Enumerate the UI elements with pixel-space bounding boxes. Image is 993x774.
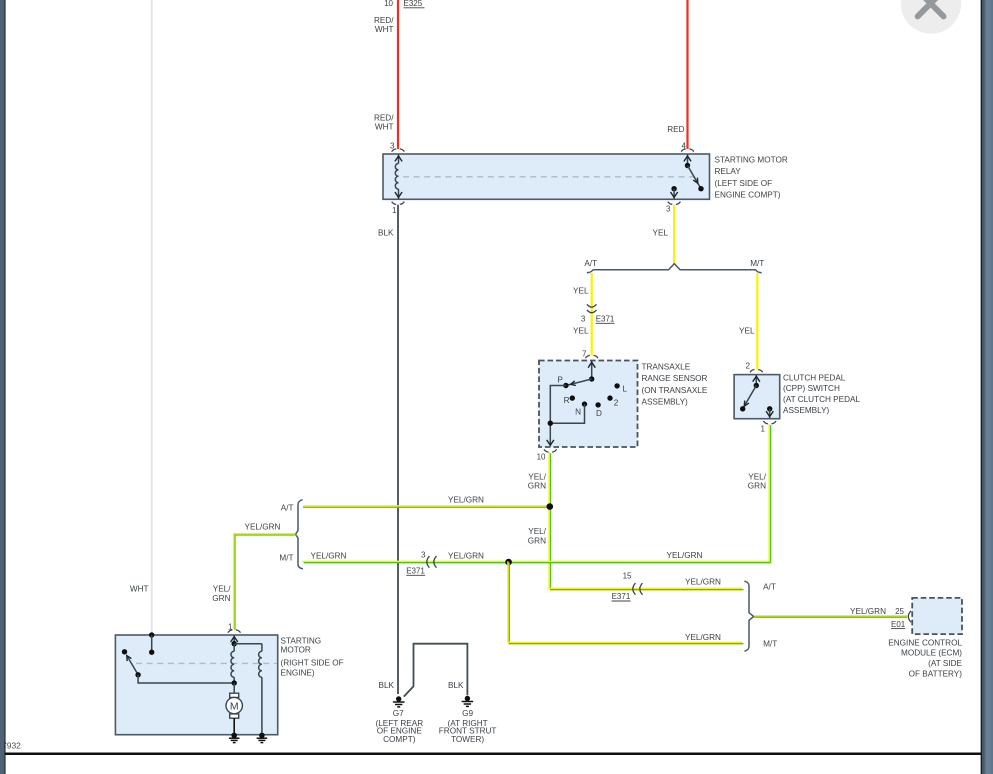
svg-text:TOWER): TOWER): [451, 735, 484, 744]
svg-text:YEL/: YEL/: [213, 585, 231, 594]
svg-text:YEL/GRN: YEL/GRN: [245, 522, 281, 531]
wire YEL from relay pin 3 to options bracket: [673, 205, 675, 264]
relay coil (pins 3-1): [395, 155, 402, 199]
connector arc relay pin 3 bottom: [668, 202, 681, 205]
connector arc relay pin 3 top: [392, 149, 405, 152]
page right bar: [980, 0, 982, 774]
motor M symbol: [226, 683, 242, 735]
svg-text:(CPP) SWITCH: (CPP) SWITCH: [783, 384, 840, 393]
wire RED vertical to relay pin 4: [686, 0, 688, 149]
svg-text:N: N: [575, 407, 581, 416]
svg-text:A/T: A/T: [763, 583, 776, 592]
svg-text:WHT: WHT: [375, 25, 394, 34]
svg-text:E01: E01: [891, 620, 906, 629]
svg-text:WHT: WHT: [375, 123, 394, 132]
svg-text:STARTING MOTOR: STARTING MOTOR: [715, 156, 788, 165]
svg-text:OF BATTERY): OF BATTERY): [909, 669, 963, 678]
svg-text:YEL/GRN: YEL/GRN: [685, 633, 721, 642]
svg-text:P: P: [557, 376, 563, 385]
wire YEL/GRN merge to ECM pin 25: [754, 616, 907, 617]
svg-text:GRN: GRN: [212, 594, 230, 603]
svg-text:(RIGHT SIDE OF: (RIGHT SIDE OF: [281, 658, 344, 667]
svg-text:E325: E325: [404, 0, 423, 8]
ground G7: [375, 696, 423, 744]
clutch internal switch: [740, 375, 773, 418]
svg-text:YEL: YEL: [573, 326, 589, 335]
motor pin 1 entry and coils: [231, 635, 262, 735]
label ENGINE CONTROL MODULE (ECM): [888, 638, 962, 678]
svg-text:ASSEMBLY): ASSEMBLY): [783, 406, 830, 415]
clutch pedal switch box: [734, 375, 780, 419]
connector E01 label: [891, 620, 906, 629]
svg-text:G7: G7: [393, 709, 404, 718]
inline connector E371 pin 3 (M/T run): [406, 551, 436, 576]
junction dot M/T: [505, 559, 512, 566]
wire BLK branch staple G7 to G9: [404, 644, 468, 697]
svg-text:YEL/GRN: YEL/GRN: [685, 578, 721, 587]
wire YEL/GRN M/T branch from left bracket to clutch pin 1: [302, 424, 770, 563]
connector arc clutch pin 2: [750, 370, 763, 373]
svg-text:YEL: YEL: [573, 286, 589, 295]
connector E325 label: [404, 0, 425, 8]
svg-text:YEL/GRN: YEL/GRN: [850, 607, 886, 616]
svg-text:(ON TRANSAXLE: (ON TRANSAXLE: [642, 386, 708, 395]
wire YEL/GRN from M/T junction down to ECM M/T run: [508, 561, 744, 643]
label CLUTCH PEDAL (CPP) SWITCH: [783, 373, 860, 415]
svg-text:YEL/GRN: YEL/GRN: [448, 552, 484, 561]
inline connector E371 pin 15 (A/T run to ECM): [612, 572, 643, 602]
svg-text:E371: E371: [612, 592, 631, 601]
svg-text:RED: RED: [667, 125, 684, 134]
connector arc starting motor pin 1: [228, 630, 241, 633]
svg-text:M/T: M/T: [279, 554, 293, 563]
svg-text:(AT SIDE: (AT SIDE: [928, 659, 962, 668]
svg-text:YEL/: YEL/: [748, 472, 766, 481]
inline connector E371 pin 3 (vertical wire): [581, 304, 615, 323]
wire BLK from relay pin 1 to ground G7: [397, 205, 399, 694]
svg-text:CLUTCH PEDAL: CLUTCH PEDAL: [783, 373, 846, 382]
svg-text:BLK: BLK: [448, 681, 464, 690]
connector arc transaxle pin 10 bottom: [544, 449, 557, 452]
svg-text:A/T: A/T: [281, 504, 294, 513]
close button: [901, 0, 961, 34]
svg-text:MODULE (ECM): MODULE (ECM): [901, 649, 962, 658]
wire YEL/GRN A/T branch from left bracket to junction: [303, 506, 550, 507]
connector arc relay pin 4 top: [681, 149, 694, 152]
transaxle range sensor box (dashed): [539, 361, 638, 448]
motor internal solenoid switch: [122, 632, 234, 683]
wire YEL left branch (A/T) to transaxle pin 7: [591, 273, 593, 355]
svg-text:(LEFT SIDE OF: (LEFT SIDE OF: [715, 179, 773, 188]
junction dot A/T: [547, 503, 554, 510]
svg-text:BLK: BLK: [378, 229, 394, 238]
transaxle internal switch: [547, 361, 628, 446]
svg-text:25: 25: [895, 607, 904, 616]
svg-text:YEL: YEL: [739, 326, 755, 335]
svg-text:2: 2: [614, 399, 619, 408]
label TRANSAXLE RANGE SENSOR: [642, 363, 708, 407]
motor internal dashed line: [136, 662, 277, 664]
svg-text:ENGINE): ENGINE): [281, 668, 315, 677]
svg-text:15: 15: [623, 572, 632, 581]
svg-text:D: D: [596, 409, 602, 418]
svg-text:L: L: [623, 385, 628, 394]
svg-text:M: M: [230, 701, 239, 713]
svg-text:RED/: RED/: [374, 113, 394, 122]
connector arc clutch pin 1 bottom: [763, 421, 776, 424]
svg-text:RANGE SENSOR: RANGE SENSOR: [642, 374, 708, 383]
svg-text:E371: E371: [406, 567, 425, 576]
svg-text:YEL/: YEL/: [528, 472, 546, 481]
svg-text:E371: E371: [596, 315, 615, 324]
svg-text:STARTING: STARTING: [281, 636, 322, 645]
svg-text:BLK: BLK: [379, 681, 395, 690]
svg-text:1: 1: [761, 425, 766, 434]
split bracket A/T M/T (left, to starting motor): [296, 500, 303, 569]
svg-text:YEL/GRN: YEL/GRN: [667, 551, 703, 560]
svg-text:M/T: M/T: [763, 640, 777, 649]
connector arc relay pin 1 bottom: [392, 202, 405, 205]
connector arc transaxle pin 7: [585, 355, 598, 358]
svg-text:COMPT): COMPT): [383, 735, 416, 744]
svg-text:WHT: WHT: [130, 585, 149, 594]
svg-text:GRN: GRN: [528, 482, 546, 491]
wire YEL right branch (M/T) to clutch pedal switch pin 2: [756, 273, 758, 369]
svg-text:A/T: A/T: [584, 259, 597, 268]
svg-text:1: 1: [392, 206, 397, 215]
starting motor relay box: [383, 154, 710, 199]
wire YEL/GRN from left bracket to starting motor pin 1: [234, 534, 297, 630]
ground (motor right): [257, 733, 268, 743]
svg-text:RELAY: RELAY: [715, 167, 742, 176]
svg-text:GRN: GRN: [748, 482, 766, 491]
svg-text:YEL/GRN: YEL/GRN: [311, 552, 347, 561]
svg-text:3: 3: [666, 205, 671, 214]
svg-text:10: 10: [384, 0, 393, 8]
svg-text:YEL/GRN: YEL/GRN: [448, 496, 484, 505]
svg-text:M/T: M/T: [750, 259, 764, 268]
connector arc E01: [908, 611, 911, 622]
page left bar: [0, 0, 4, 774]
svg-text:RED/: RED/: [374, 16, 394, 25]
page bottom border: [4, 753, 981, 756]
svg-text:YEL/: YEL/: [528, 527, 546, 536]
svg-text:TRANSAXLE: TRANSAXLE: [642, 363, 691, 372]
options bracket A/T M/T (under relay): [587, 264, 762, 273]
svg-text:R: R: [564, 396, 570, 405]
wire WHT vertical (battery feed to starting motor): [151, 0, 153, 635]
svg-text:3: 3: [421, 551, 426, 560]
wire YEL/GRN from transaxle pin 10 down to E371-15 run: [549, 452, 743, 590]
label STARTING MOTOR RELAY: [715, 156, 788, 200]
svg-text:3: 3: [581, 315, 586, 324]
svg-text:GRN: GRN: [528, 536, 546, 545]
relay switch (pins 4-3): [671, 155, 704, 199]
svg-text:ENGINE COMPT): ENGINE COMPT): [715, 191, 781, 200]
wire RED/WHT vertical to relay pin 3: [397, 0, 399, 149]
label STARTING MOTOR: [281, 636, 344, 677]
ground (motor left): [229, 733, 240, 743]
svg-text:G9: G9: [462, 709, 473, 718]
svg-text:10: 10: [537, 453, 546, 462]
svg-text:YEL: YEL: [653, 229, 669, 238]
relay internal dashed line: [403, 176, 700, 178]
engine control module box (dashed): [912, 598, 962, 634]
ground G9: [439, 696, 497, 744]
svg-text:(AT CLUTCH PEDAL: (AT CLUTCH PEDAL: [783, 395, 860, 404]
svg-text:ENGINE CONTROL: ENGINE CONTROL: [888, 638, 962, 647]
svg-text:MOTOR: MOTOR: [281, 645, 311, 654]
svg-text:ASSEMBLY): ASSEMBLY): [642, 398, 689, 407]
svg-text:2: 2: [746, 362, 751, 371]
merge bracket A/T M/T (to ECM): [744, 581, 753, 651]
starting motor box: [115, 635, 277, 735]
